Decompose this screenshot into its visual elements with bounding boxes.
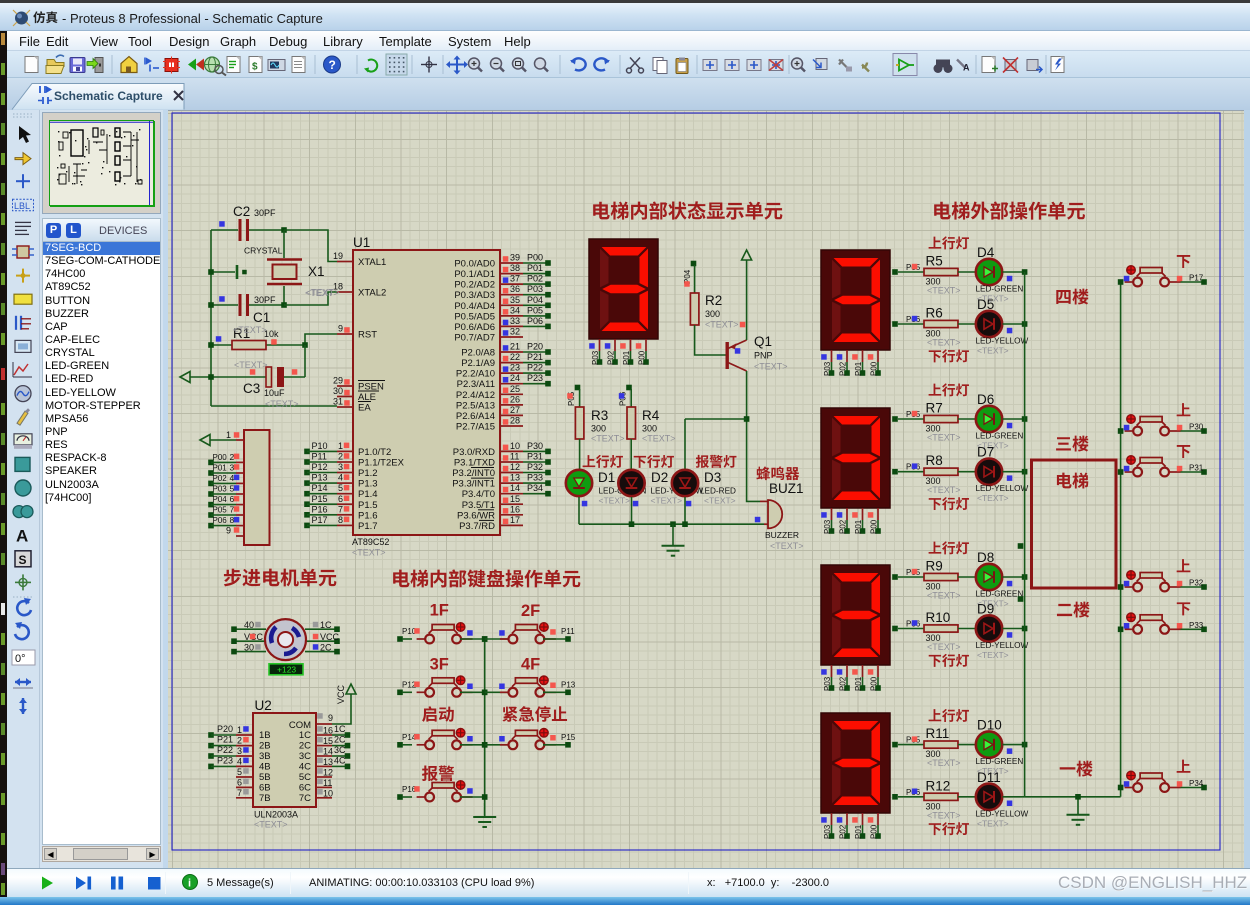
capacitor C3 10uF bbox=[234, 360, 305, 409]
resistor R9 300 bbox=[924, 559, 976, 601]
wire RP1 P06 pin8 bbox=[208, 515, 244, 528]
svg-text:P03: P03 bbox=[823, 519, 832, 534]
svg-text:2: 2 bbox=[230, 452, 235, 462]
svg-text:C1: C1 bbox=[253, 310, 270, 325]
junction LED bus D7 bbox=[1022, 469, 1028, 475]
svg-text:1F: 1F bbox=[430, 602, 449, 620]
svg-text:P1.4: P1.4 bbox=[358, 489, 378, 500]
svg-text:33: 33 bbox=[510, 316, 520, 326]
svg-text:12: 12 bbox=[510, 462, 520, 472]
U1 pin 39 P0.0 bbox=[454, 253, 550, 270]
svg-text:D11: D11 bbox=[977, 770, 1001, 785]
wire RST net bbox=[305, 334, 337, 345]
svg-text:A: A bbox=[16, 527, 28, 546]
svg-text:R11: R11 bbox=[926, 726, 950, 741]
svg-text:P15: P15 bbox=[312, 494, 328, 504]
U1 pin 1 P1.0 net P10 bbox=[304, 441, 391, 458]
text floor label 二楼 bbox=[1057, 602, 1090, 618]
svg-text:P02: P02 bbox=[527, 274, 543, 284]
svg-text:P3.2/INT0: P3.2/INT0 bbox=[452, 468, 495, 479]
text label alarm lamp bbox=[696, 455, 737, 468]
svg-text:P14: P14 bbox=[312, 483, 328, 493]
U1 pin 28 P2.7 bbox=[456, 416, 523, 433]
junction LED bus D10 bbox=[1022, 742, 1028, 748]
svg-text:5B: 5B bbox=[259, 772, 271, 783]
svg-text:P17: P17 bbox=[1189, 274, 1204, 283]
svg-text:1: 1 bbox=[226, 430, 231, 440]
text title external ops bbox=[934, 201, 1085, 219]
U1 pin 25 P2.4 bbox=[456, 384, 523, 401]
svg-text:<TEXT>: <TEXT> bbox=[927, 338, 961, 348]
svg-text:5: 5 bbox=[237, 767, 242, 777]
svg-text:300: 300 bbox=[642, 424, 657, 434]
svg-text:24: 24 bbox=[510, 373, 520, 383]
svg-text:30: 30 bbox=[244, 643, 254, 653]
svg-text:P02: P02 bbox=[839, 824, 848, 839]
junction C2/X1 bbox=[281, 227, 287, 233]
svg-text:<TEXT>: <TEXT> bbox=[977, 346, 1009, 356]
power arrow VCC U2 bbox=[332, 684, 356, 724]
svg-text:5: 5 bbox=[230, 484, 235, 494]
svg-text:XTAL2: XTAL2 bbox=[358, 288, 386, 299]
svg-text:P3.7/RD: P3.7/RD bbox=[459, 521, 495, 532]
svg-text:0°: 0° bbox=[15, 653, 26, 665]
wire D10 to bus bbox=[1003, 744, 1025, 746]
svg-text:Q1: Q1 bbox=[754, 334, 772, 349]
resistor R11 300 bbox=[924, 726, 976, 768]
svg-text:R9: R9 bbox=[926, 559, 943, 574]
svg-text:R4: R4 bbox=[642, 408, 660, 423]
svg-text:9: 9 bbox=[328, 713, 333, 723]
op U2 ULN2003A body bbox=[253, 698, 316, 830]
U1 pin 14 P3.4 bbox=[462, 483, 551, 500]
node P05 net row R9 bbox=[892, 568, 924, 580]
svg-text:15: 15 bbox=[323, 736, 333, 746]
svg-text:P3.3/INT1: P3.3/INT1 bbox=[452, 479, 495, 490]
op U1 AT89C52 body bbox=[352, 235, 500, 558]
junction R1/rail bbox=[208, 342, 214, 348]
svg-text:<TEXT>: <TEXT> bbox=[651, 496, 683, 506]
svg-text:P34: P34 bbox=[527, 483, 543, 493]
resistor R6 300 bbox=[924, 306, 976, 348]
U2 pin 5 5B bbox=[236, 767, 271, 783]
svg-text:P04: P04 bbox=[213, 495, 228, 504]
svg-text:P00: P00 bbox=[870, 824, 879, 839]
junction RST/C3 bbox=[302, 342, 308, 348]
svg-text:P33: P33 bbox=[527, 473, 543, 483]
RP1 pin9 bbox=[226, 526, 244, 537]
elevator zone box bbox=[1032, 460, 1117, 588]
node P05 net row R7 bbox=[892, 410, 924, 422]
svg-text:2C: 2C bbox=[320, 643, 332, 653]
U1 pin 18 XTAL2 bbox=[333, 282, 386, 299]
svg-text:7: 7 bbox=[230, 505, 235, 515]
text label 4F bbox=[521, 655, 540, 673]
svg-text:P01: P01 bbox=[854, 361, 863, 376]
svg-text:P01: P01 bbox=[854, 676, 863, 691]
wire C3 to RST bbox=[304, 345, 306, 377]
svg-text:P32: P32 bbox=[527, 462, 543, 472]
svg-text:LED-YELLOW: LED-YELLOW bbox=[976, 484, 1029, 493]
svg-text:VCC: VCC bbox=[320, 632, 340, 642]
svg-text:D6: D6 bbox=[977, 392, 994, 407]
text label 下 P31 bbox=[1177, 445, 1190, 458]
svg-text:P16: P16 bbox=[312, 504, 328, 514]
wire D5 to bus bbox=[1003, 323, 1025, 325]
svg-text:P01: P01 bbox=[854, 519, 863, 534]
svg-text:35: 35 bbox=[510, 295, 520, 305]
U1 pin 11 P3.1 bbox=[454, 452, 551, 469]
wire XTAL1 net bbox=[284, 230, 337, 262]
svg-text:<TEXT>: <TEXT> bbox=[927, 642, 961, 652]
svg-text:D4: D4 bbox=[977, 245, 995, 260]
text title keyboard bbox=[393, 569, 580, 587]
svg-text:<TEXT>: <TEXT> bbox=[977, 818, 1009, 828]
button P17 下 bbox=[1118, 266, 1207, 287]
svg-text:CRYSTAL: CRYSTAL bbox=[244, 246, 283, 256]
text label 报警 bbox=[422, 765, 454, 781]
svg-text:10: 10 bbox=[323, 788, 333, 798]
svg-text:P00: P00 bbox=[527, 253, 543, 263]
node P06 net row R6 bbox=[892, 315, 924, 327]
svg-text:7C: 7C bbox=[299, 793, 311, 804]
svg-text:P00: P00 bbox=[870, 676, 879, 691]
svg-text:<TEXT>: <TEXT> bbox=[927, 810, 961, 820]
svg-text:P05: P05 bbox=[213, 506, 228, 515]
svg-text:P00: P00 bbox=[213, 453, 228, 462]
svg-text:i: i bbox=[188, 878, 191, 890]
svg-text:6: 6 bbox=[338, 494, 343, 504]
svg-text:P1.2: P1.2 bbox=[358, 468, 378, 479]
U1 pin 19 XTAL1 bbox=[333, 251, 386, 268]
wire LED cathode bus bbox=[579, 497, 764, 524]
node P06 net row R12 bbox=[892, 788, 924, 800]
7seg display DISP1 bbox=[589, 239, 658, 365]
text label 启动 bbox=[422, 706, 454, 722]
svg-text:P02: P02 bbox=[839, 519, 848, 534]
svg-text:VCC: VCC bbox=[336, 684, 346, 704]
wire RP1 P02 pin4 bbox=[208, 473, 244, 486]
svg-text:9: 9 bbox=[338, 324, 343, 334]
svg-text:R5: R5 bbox=[926, 254, 943, 269]
U2 pin 10 7C bbox=[299, 788, 333, 804]
svg-text:<TEXT>: <TEXT> bbox=[754, 362, 788, 372]
svg-text:6: 6 bbox=[230, 494, 235, 504]
svg-text:AT89C52: AT89C52 bbox=[352, 537, 389, 547]
text floor label 一楼 bbox=[1060, 761, 1093, 777]
svg-text:36: 36 bbox=[510, 284, 520, 294]
svg-text:P3.6/WR: P3.6/WR bbox=[457, 510, 495, 521]
button P14 启动 bbox=[397, 729, 487, 750]
svg-text:D10: D10 bbox=[977, 718, 1002, 733]
svg-text:R2: R2 bbox=[705, 293, 722, 308]
svg-text:P2.2/A10: P2.2/A10 bbox=[456, 369, 495, 380]
svg-text:P11: P11 bbox=[312, 452, 327, 462]
svg-text:P20: P20 bbox=[217, 724, 233, 734]
text label 上行灯 R7 bbox=[929, 383, 969, 396]
svg-text:P1.0/T2: P1.0/T2 bbox=[358, 447, 391, 458]
svg-text:14: 14 bbox=[510, 483, 520, 493]
svg-text:LED-RED: LED-RED bbox=[700, 487, 736, 496]
svg-text:R10: R10 bbox=[926, 610, 951, 625]
junction LED bus D6 bbox=[1022, 416, 1028, 422]
svg-text:P03: P03 bbox=[823, 824, 832, 839]
svg-text:<TEXT>: <TEXT> bbox=[927, 485, 961, 495]
svg-text:P01: P01 bbox=[622, 350, 631, 365]
svg-text:P0.6/AD6: P0.6/AD6 bbox=[454, 322, 495, 333]
U1 pin 31 EA bbox=[333, 397, 371, 414]
svg-text:P02: P02 bbox=[839, 676, 848, 691]
junction C3/rail bbox=[208, 374, 214, 380]
wire left supply rail bbox=[210, 230, 212, 406]
LED D6 green bbox=[976, 392, 1024, 451]
svg-text:P0.1/AD1: P0.1/AD1 bbox=[454, 269, 495, 280]
svg-text:38: 38 bbox=[510, 263, 520, 273]
svg-text:P2.4/A12: P2.4/A12 bbox=[456, 390, 495, 401]
node P05 net row R11 bbox=[892, 736, 924, 748]
resistor R3 300 bbox=[575, 407, 624, 469]
svg-text:P1.5: P1.5 bbox=[358, 500, 378, 511]
U2 pin 4 4B bbox=[208, 755, 270, 772]
svg-text:D3: D3 bbox=[704, 470, 721, 485]
svg-text:D5: D5 bbox=[977, 297, 994, 312]
ground middle bbox=[662, 524, 685, 556]
svg-text:2C: 2C bbox=[299, 741, 311, 752]
svg-text:P0.3/AD3: P0.3/AD3 bbox=[454, 290, 495, 301]
svg-text:300: 300 bbox=[591, 424, 606, 434]
svg-text:<TEXT>: <TEXT> bbox=[352, 548, 386, 558]
resistor R4 300 bbox=[627, 407, 676, 469]
svg-text:26: 26 bbox=[510, 394, 520, 404]
svg-text:R3: R3 bbox=[591, 408, 608, 423]
svg-text:2C: 2C bbox=[334, 735, 346, 745]
node P04 net R2 bbox=[683, 261, 696, 293]
svg-text:23: 23 bbox=[510, 363, 520, 373]
wire D11 to bus bbox=[1003, 796, 1025, 798]
svg-text:P03: P03 bbox=[591, 350, 600, 365]
text label 下行灯 R8 bbox=[929, 497, 969, 510]
junction LED bus D8 bbox=[1022, 574, 1028, 580]
svg-text:R7: R7 bbox=[926, 401, 943, 416]
svg-text:<TEXT>: <TEXT> bbox=[705, 320, 739, 330]
button P31 下 bbox=[1118, 456, 1207, 477]
svg-text:P3.5/T1: P3.5/T1 bbox=[462, 500, 495, 511]
svg-text:P2.1/A9: P2.1/A9 bbox=[461, 358, 495, 369]
svg-text:LED-YELLOW: LED-YELLOW bbox=[976, 337, 1029, 346]
svg-text:LED-YELLOW: LED-YELLOW bbox=[976, 641, 1029, 650]
svg-text:X1: X1 bbox=[308, 264, 325, 279]
resistor R12 300 bbox=[924, 778, 976, 820]
U2 pin 6 6B bbox=[236, 777, 271, 793]
node terminal B bbox=[1018, 596, 1024, 602]
svg-text:<TEXT>: <TEXT> bbox=[265, 399, 299, 409]
svg-text:P06: P06 bbox=[213, 516, 228, 525]
resistor R7 300 bbox=[924, 401, 976, 443]
resistor R1 10k bbox=[211, 325, 305, 350]
U1 pin 29 PSEN bbox=[333, 376, 385, 393]
text label 上行灯 R9 bbox=[929, 541, 969, 554]
text label 下行灯 R10 bbox=[929, 654, 969, 667]
svg-text:4F: 4F bbox=[521, 655, 540, 673]
U1 pin 12 P3.2 bbox=[452, 462, 551, 479]
svg-text:<TEXT>: <TEXT> bbox=[770, 541, 804, 551]
svg-text:P17: P17 bbox=[312, 515, 328, 525]
svg-text:P21: P21 bbox=[527, 352, 543, 362]
svg-text:R6: R6 bbox=[926, 306, 943, 321]
svg-text:P15: P15 bbox=[561, 733, 576, 742]
svg-text:P2.6/A14: P2.6/A14 bbox=[456, 411, 495, 422]
svg-text:<TEXT>: <TEXT> bbox=[927, 286, 961, 296]
svg-text:9: 9 bbox=[226, 526, 231, 536]
capacitor C2 bbox=[211, 204, 284, 241]
svg-text:3C: 3C bbox=[334, 745, 346, 755]
svg-text:P13: P13 bbox=[312, 473, 328, 483]
svg-text:4C: 4C bbox=[334, 755, 346, 765]
svg-text:7B: 7B bbox=[259, 793, 271, 804]
crystal X1 bbox=[244, 230, 339, 305]
U2 pin 16 1C bbox=[299, 724, 350, 741]
LED D1 green bbox=[566, 470, 647, 507]
U1 pin 4 P1.3 net P13 bbox=[304, 473, 377, 490]
svg-text:29: 29 bbox=[333, 376, 343, 386]
svg-text:P12: P12 bbox=[312, 462, 328, 472]
svg-text:<TEXT>: <TEXT> bbox=[977, 650, 1009, 660]
junction alarm branch bbox=[744, 416, 750, 422]
7seg display DISP2 bbox=[821, 250, 890, 376]
svg-text:<TEXT>: <TEXT> bbox=[234, 360, 268, 370]
svg-text:2: 2 bbox=[237, 736, 242, 746]
svg-text:LED-GREEN: LED-GREEN bbox=[976, 285, 1024, 294]
U2 pin 13 4C bbox=[299, 755, 350, 772]
wire alarm net bbox=[685, 418, 747, 420]
svg-text:P1.3: P1.3 bbox=[358, 479, 378, 490]
svg-text:<TEXT>: <TEXT> bbox=[599, 496, 631, 506]
svg-text:P00: P00 bbox=[870, 361, 879, 376]
text label 上 P32 bbox=[1177, 559, 1191, 572]
U2 pin 2 2B bbox=[208, 735, 270, 752]
wire EA net bbox=[211, 405, 337, 407]
U1 pin 21 P2.0 bbox=[461, 342, 551, 359]
svg-text:C2: C2 bbox=[233, 204, 250, 219]
svg-text:S: S bbox=[19, 553, 27, 567]
svg-text:10: 10 bbox=[510, 441, 520, 451]
svg-text:P0.2/AD2: P0.2/AD2 bbox=[454, 280, 495, 291]
LED D11 yellow bbox=[976, 770, 1029, 829]
wire RP1 P03 pin5 bbox=[208, 484, 244, 497]
svg-text:P23: P23 bbox=[217, 755, 233, 765]
power arrow VCC Q1 bbox=[742, 250, 752, 340]
svg-text:P01: P01 bbox=[527, 263, 543, 273]
svg-text:BUZZER: BUZZER bbox=[765, 530, 799, 540]
U1 pin 24 P2.3 bbox=[457, 373, 551, 390]
junction ground tap bbox=[670, 521, 676, 527]
U1 pin 7 P1.6 net P16 bbox=[304, 504, 377, 521]
U1 pin 26 P2.5 bbox=[456, 394, 523, 411]
svg-text:1C: 1C bbox=[299, 730, 311, 741]
transistor Q1 PNP bbox=[726, 334, 788, 372]
svg-text:P2.0/A8: P2.0/A8 bbox=[461, 348, 495, 359]
svg-text:- Proteus 8 Professional - Sch: - Proteus 8 Professional - Schematic Cap… bbox=[62, 11, 323, 26]
svg-text:5C: 5C bbox=[299, 772, 311, 783]
button P15 紧急停止 bbox=[482, 729, 576, 750]
svg-text:P30: P30 bbox=[527, 441, 543, 451]
svg-text:LED-YELLOW: LED-YELLOW bbox=[976, 809, 1029, 818]
svg-text:2: 2 bbox=[338, 452, 343, 462]
svg-text:22: 22 bbox=[510, 352, 520, 362]
text title internal status bbox=[593, 201, 782, 219]
svg-text:15: 15 bbox=[510, 494, 520, 504]
svg-text:D9: D9 bbox=[977, 602, 994, 617]
svg-text:LED-GREEN: LED-GREEN bbox=[976, 590, 1024, 599]
svg-text:P33: P33 bbox=[1189, 621, 1204, 630]
U1 pin 30 ALE bbox=[333, 386, 379, 403]
svg-text:P01: P01 bbox=[213, 464, 228, 473]
resistor R5 300 bbox=[924, 254, 976, 296]
U1 pin 17 P3.7 bbox=[459, 515, 523, 532]
svg-text:21: 21 bbox=[510, 342, 520, 352]
svg-text:3F: 3F bbox=[430, 655, 449, 673]
text label down lamp1 bbox=[634, 455, 674, 468]
wire LED bus vertical bbox=[1024, 272, 1026, 797]
svg-text:P21: P21 bbox=[217, 735, 233, 745]
svg-text:3C: 3C bbox=[299, 751, 311, 762]
svg-text:P1.1/T2EX: P1.1/T2EX bbox=[358, 458, 405, 469]
svg-text:R12: R12 bbox=[926, 778, 951, 793]
svg-text:D8: D8 bbox=[977, 550, 994, 565]
svg-text:16: 16 bbox=[323, 726, 333, 736]
U2 pin 3 3B bbox=[208, 745, 270, 762]
svg-text:30: 30 bbox=[333, 386, 343, 396]
svg-text:P02: P02 bbox=[607, 350, 616, 365]
U2 pin 11 6C bbox=[299, 778, 333, 794]
node P06 net R4 bbox=[619, 385, 632, 407]
wire D6 to bus bbox=[1003, 418, 1025, 420]
wire D7 to bus bbox=[1003, 471, 1025, 473]
svg-text:13: 13 bbox=[510, 473, 520, 483]
svg-text:3: 3 bbox=[338, 462, 343, 472]
svg-text:19: 19 bbox=[333, 251, 343, 261]
junction X1/C1 bbox=[281, 302, 287, 308]
svg-text:A: A bbox=[963, 63, 970, 73]
svg-text:16: 16 bbox=[510, 504, 520, 514]
svg-text:P00: P00 bbox=[870, 519, 879, 534]
wire D8 to bus bbox=[1003, 576, 1025, 578]
svg-text:300: 300 bbox=[705, 309, 720, 319]
junction LED bus D5 bbox=[1022, 321, 1028, 327]
svg-text:R8: R8 bbox=[926, 453, 943, 468]
power stub cell bbox=[211, 265, 247, 279]
U1 pin 13 P3.3 bbox=[452, 473, 551, 490]
svg-text:P01: P01 bbox=[854, 824, 863, 839]
svg-text:P03: P03 bbox=[527, 284, 543, 294]
button P16 报警 bbox=[397, 781, 487, 802]
svg-text:C3: C3 bbox=[243, 381, 260, 396]
svg-text:P0.4/AD4: P0.4/AD4 bbox=[454, 301, 495, 312]
svg-text:LBL: LBL bbox=[14, 201, 30, 211]
junction D2 bus bbox=[629, 521, 635, 527]
motor-stepper M1 bbox=[231, 619, 340, 660]
svg-text:3B: 3B bbox=[259, 751, 271, 762]
U1 pin 35 P0.4 bbox=[454, 295, 550, 312]
wire RP1 P04 pin6 bbox=[208, 494, 244, 507]
resistor R10 300 bbox=[924, 610, 976, 652]
svg-text:BUZ1: BUZ1 bbox=[769, 481, 804, 496]
button P10 1F bbox=[397, 623, 487, 644]
ground right bbox=[1067, 794, 1090, 825]
U1 pin 32 P0.7 bbox=[454, 327, 523, 344]
svg-text:P02: P02 bbox=[839, 361, 848, 376]
node terminal A bbox=[1018, 543, 1024, 549]
